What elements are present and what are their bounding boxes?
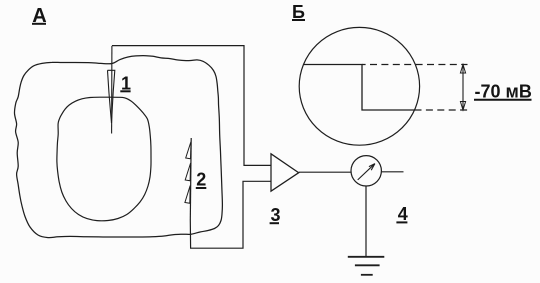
label А [32,5,47,27]
wire meter to ground [365,186,367,257]
dashed reference line upper [362,64,468,66]
trace: membrane potential step [303,65,415,111]
label 4 [396,204,407,224]
wire from electrode 1 to amplifier top input [112,46,271,166]
wire from electrode 2 to amplifier bottom input [190,181,270,248]
label Б [292,2,305,22]
label 2 [196,170,207,190]
ground [348,257,385,275]
svg-text:-70 мВ: -70 мВ [475,81,532,101]
svg-text:3: 3 [271,205,281,225]
dashed reference line lower [415,109,468,111]
reference electrode 2 (indifferent electrode) [185,138,191,220]
amplifier 3 (triangle) [271,154,299,191]
meter 4 (galvanometer) [351,156,381,186]
oscilloscope screen Б [299,27,419,145]
wire amplifier output to meter [299,171,351,173]
dimension arrow (voltage span) [460,65,465,111]
svg-text:4: 4 [398,204,408,224]
label 1 [120,73,131,93]
label -70 мВ [474,81,532,101]
cell nucleus [57,97,151,221]
label 3 [270,205,281,225]
wire meter right stub [381,171,403,173]
svg-text:2: 2 [196,170,206,190]
svg-text:Б: Б [292,2,305,22]
microelectrode 1 (glass micropipette) [108,46,115,134]
cell membrane [14,56,222,238]
